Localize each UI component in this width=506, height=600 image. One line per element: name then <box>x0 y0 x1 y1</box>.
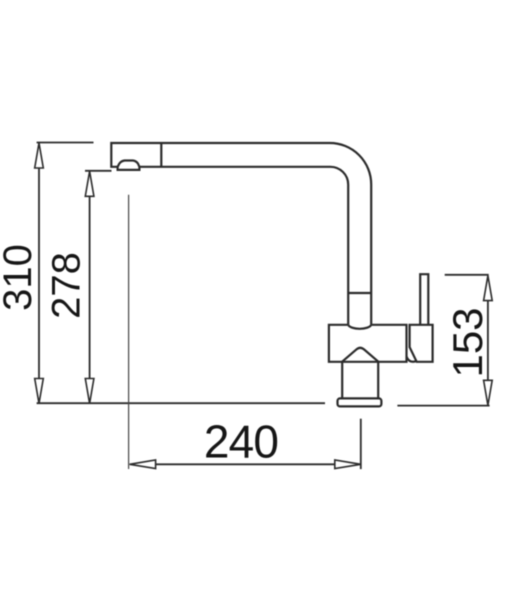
faucet spout and down tube outline <box>111 143 371 325</box>
arrow left 240 <box>130 460 156 469</box>
arrow up 310 <box>35 143 44 168</box>
spout divider line <box>160 143 162 167</box>
base plate <box>338 398 382 406</box>
tube socket arc <box>348 325 371 329</box>
arrow down 278 <box>85 379 94 404</box>
svg-text:153: 153 <box>444 307 491 377</box>
handle housing <box>410 325 433 362</box>
center line of spout outlet <box>128 195 130 469</box>
svg-text:278: 278 <box>45 252 89 319</box>
dimension line 153 <box>487 301 489 381</box>
handle lever rod <box>420 274 428 325</box>
arrow down 153 <box>484 380 493 405</box>
arrow up 278 <box>85 171 94 196</box>
riser cylinder left side <box>341 362 343 399</box>
dimension line 310 <box>38 168 40 379</box>
svg-text:310: 310 <box>0 244 40 311</box>
extension line top 310 <box>37 142 94 144</box>
riser cylinder right side <box>377 362 379 399</box>
extension line top 278 <box>85 170 112 172</box>
extension line top 153 <box>445 274 489 276</box>
valve body <box>329 325 407 362</box>
cone silhouette chevron <box>342 348 379 362</box>
extension line 240 right <box>360 419 362 469</box>
dimension line 278 <box>89 196 91 378</box>
arrow right 240 <box>335 460 361 469</box>
svg-text:240: 240 <box>204 416 278 468</box>
arrow up 153 <box>484 276 493 301</box>
ground extension line right <box>397 405 489 407</box>
ground extension line left <box>37 402 325 404</box>
dimension line 240 <box>156 463 335 465</box>
arrow down 310 <box>35 379 44 404</box>
handle housing bottom arc <box>407 357 417 362</box>
aerator bump <box>118 161 140 170</box>
tube joint line <box>348 292 371 294</box>
